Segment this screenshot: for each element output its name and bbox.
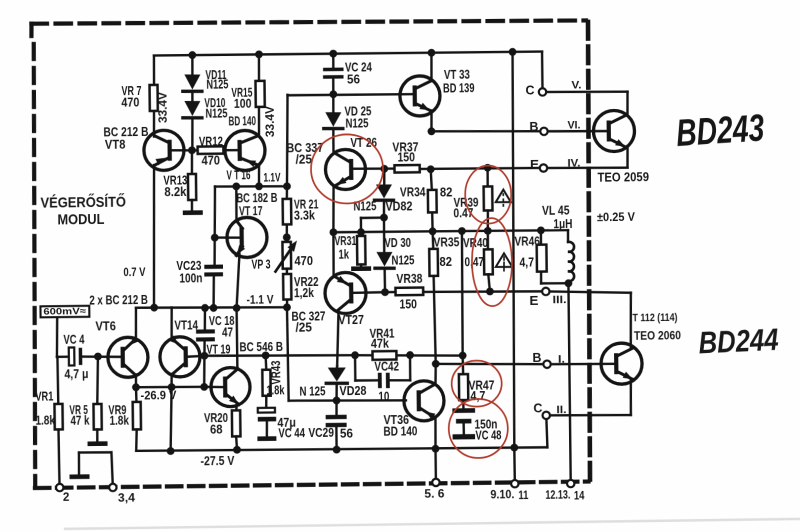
svg-text:III.: III. (552, 294, 566, 306)
svg-text:TEO 2060: TEO 2060 (634, 328, 681, 343)
svg-text:0,47: 0,47 (464, 255, 484, 269)
svg-text:3,4: 3,4 (118, 492, 136, 504)
svg-text:VC 48: VC 48 (475, 428, 501, 442)
ground below VR31 (351, 266, 371, 271)
wire VT19 collector (235, 308, 238, 369)
red circle around VR40 (471, 218, 512, 306)
resistor VR12 (197, 135, 223, 168)
svg-text:VD28: VD28 (339, 384, 366, 398)
wire VT16 emitter (258, 165, 261, 187)
svg-text:N125: N125 (391, 253, 414, 267)
label T112 TEO2060 (632, 312, 681, 343)
terminal E (IV.) (530, 156, 581, 172)
svg-text:82: 82 (439, 255, 452, 269)
label 2 x BC 212 B (89, 293, 148, 308)
junction output node (564, 279, 572, 287)
scan streak bottom (65, 519, 800, 529)
junction rail at x170 (167, 447, 175, 455)
svg-text:B: B (529, 119, 538, 134)
transistor VT17 (BC182B) (226, 191, 278, 258)
svg-text:VT 33: VT 33 (444, 68, 470, 82)
junction VT6 collector / VR9 (132, 383, 140, 391)
potentiometer VP3 (251, 240, 313, 272)
junction -1.1V row at VR22 (283, 303, 291, 311)
transistor VT14 (BC212B) (160, 318, 201, 377)
resistor VR47 (459, 355, 495, 403)
wire VT33 collector (430, 53, 433, 81)
svg-text:1.8k: 1.8k (266, 383, 284, 397)
diode VD30 (374, 217, 414, 292)
wire -1.1V row (136, 306, 287, 309)
junction rail at VR20 (233, 446, 241, 454)
svg-text:VT6: VT6 (95, 319, 116, 333)
transistor VT27 (BC327/25) (291, 272, 367, 334)
svg-text:VT 19: VT 19 (206, 342, 230, 356)
junction VR21/VP3 (283, 233, 291, 241)
svg-text:VR35: VR35 (433, 235, 459, 249)
svg-text:12.13.: 12.13. (545, 490, 570, 502)
terminal B (I.) (532, 349, 614, 368)
ground below VC44 (257, 436, 276, 441)
transistor VT26 (BC337/25) (286, 136, 377, 191)
diode VD11 (182, 55, 228, 92)
wire VR46/VL45 bottom (541, 282, 568, 285)
svg-text:33.4V: 33.4V (265, 106, 277, 137)
red circle around VR47 (451, 360, 502, 407)
label ±0.25V (597, 210, 635, 224)
svg-text:I.: I. (558, 353, 565, 365)
wire VT19 emitter (235, 404, 238, 410)
capacitor VC4 (4.7u) (63, 332, 120, 381)
wire C-II jog to rail (546, 419, 547, 447)
wire output column (568, 283, 570, 481)
svg-text:150: 150 (399, 297, 417, 311)
wire B-I row (436, 363, 543, 366)
handwritten BD243 (675, 107, 766, 155)
wire column 462 (461, 231, 463, 355)
resistor VR46 (514, 230, 547, 283)
capacitor VC29 (308, 400, 353, 450)
resistor VR39 (453, 168, 493, 232)
svg-text:2 x BC 212 B: 2 x BC 212 B (89, 293, 148, 308)
svg-text:C: C (533, 400, 543, 415)
svg-text:9.10.: 9.10. (490, 489, 514, 501)
svg-text:N 125: N 125 (299, 384, 325, 398)
transistor VT33 (BD139) (400, 68, 475, 117)
red circle around VT26 (311, 134, 384, 204)
wire pin9-11 column lower (513, 448, 516, 481)
select mark at VR40 (496, 253, 513, 273)
junction VC18 / feedback row (200, 352, 208, 360)
wire VT26 emitter (333, 185, 334, 232)
diode VD82 (353, 168, 413, 217)
wire VD82 stub to VR31 (361, 218, 384, 233)
resistor VR7 (121, 55, 170, 134)
junction VT33 emitter / B row (428, 127, 436, 135)
svg-text:470: 470 (294, 254, 313, 268)
capacitor VC24 (323, 53, 372, 94)
svg-text:8.2k: 8.2k (164, 185, 186, 199)
junction feedback row VR41 left (351, 351, 359, 359)
junction feedback row VR47 (459, 352, 467, 360)
wire VT19 base (204, 385, 222, 388)
terminal E (III.) (529, 287, 566, 308)
svg-text:-1.1 V: -1.1 V (246, 293, 273, 307)
wire -27.5V rail (136, 446, 547, 452)
junction row186 at VR21 (283, 182, 291, 190)
junction on top rail at supply column (509, 48, 517, 56)
svg-text:1μH: 1μH (553, 217, 572, 231)
ground below VR5 (88, 441, 108, 446)
wire bias row y186 (215, 186, 287, 187)
svg-text:82: 82 (440, 185, 453, 199)
capacitor VC48 (452, 400, 501, 443)
svg-text:VT27: VT27 (338, 313, 364, 327)
wire output rail y231 (333, 230, 568, 245)
junction feedback row VR43 (262, 352, 270, 360)
junction rail231 VR39 (484, 227, 492, 235)
svg-text:VR46: VR46 (514, 234, 540, 248)
wire BD244 emitter (550, 380, 631, 416)
svg-text:V.: V. (571, 79, 581, 91)
svg-text:1,2k: 1,2k (294, 286, 314, 300)
svg-text:MODUL: MODUL (57, 211, 104, 229)
capacitor VC18 (196, 308, 235, 356)
red circle around VR39 (465, 165, 512, 224)
wire VT14 collector to rail (170, 387, 172, 451)
resistor VR21 (282, 186, 318, 242)
svg-text:5. 6: 5. 6 (424, 488, 444, 500)
wire feedback row (204, 353, 462, 359)
wire B row to terminal (431, 130, 540, 132)
junction VR37 row at VD82 (380, 165, 388, 173)
junction VD82 bottom (380, 214, 388, 222)
junction rail231 VR46 (537, 226, 545, 234)
diode VD28 (299, 366, 366, 401)
resistor VR13 (163, 150, 196, 211)
wire VT27 emitter (332, 232, 335, 277)
svg-text:470: 470 (121, 95, 139, 109)
terminal C (V.) (525, 79, 627, 117)
svg-text:VR12: VR12 (199, 135, 223, 149)
svg-text:4,7: 4,7 (519, 255, 534, 269)
svg-text:/25: /25 (295, 320, 312, 334)
svg-text:V T 16: V T 16 (226, 168, 250, 182)
wire BD243 emitter (547, 146, 628, 169)
resistor VR15 (231, 54, 277, 137)
svg-text:VD 30: VD 30 (384, 236, 411, 250)
junction rail231 VR31 (357, 228, 365, 236)
svg-text:E: E (530, 157, 540, 172)
svg-text:BC 546 B: BC 546 B (239, 340, 283, 355)
svg-text:47 k: 47 k (70, 414, 89, 428)
svg-text:T 112 (114): T 112 (114) (632, 312, 677, 325)
junction rail at VC29 (333, 446, 341, 454)
svg-text:VC42: VC42 (374, 360, 399, 374)
junction VT27 base / VD30 (381, 288, 389, 296)
svg-text:BD 140: BD 140 (383, 424, 417, 438)
transistor VT8 (BC212B) (103, 125, 184, 171)
ground at pin loop (69, 474, 89, 479)
wire VT17 emitter (236, 254, 240, 308)
svg-text:1.1V: 1.1V (263, 172, 280, 184)
svg-text:100: 100 (234, 97, 252, 111)
svg-text:VL 45: VL 45 (542, 204, 570, 218)
label -26.9V (140, 388, 176, 402)
svg-text:E: E (529, 293, 539, 308)
capacitor VC44 (47u) (257, 395, 305, 440)
svg-text:VR43: VR43 (269, 360, 283, 384)
svg-text:II.: II. (556, 404, 566, 416)
wire VR35 col to B row (434, 355, 437, 363)
svg-text:1k: 1k (338, 247, 349, 261)
resistor VR37 (392, 140, 419, 172)
inductor VL45 (542, 204, 575, 284)
svg-text:1.8k: 1.8k (109, 414, 129, 428)
junction VD28 bottom (333, 397, 341, 405)
junction rail at VT36 emitter (432, 445, 440, 453)
svg-text:VÉGERŐSÍTŐ: VÉGERŐSÍTŐ (40, 193, 126, 212)
svg-text:VC 44: VC 44 (278, 426, 305, 440)
svg-text:56: 56 (340, 426, 353, 440)
svg-text:BD 140: BD 140 (228, 114, 256, 128)
capacitor VC23 (176, 258, 223, 308)
junction feedback row VR41 right (406, 351, 414, 359)
svg-text:BD243: BD243 (675, 107, 766, 155)
terminal C (II.) (533, 400, 566, 419)
svg-text:100n: 100n (179, 271, 202, 285)
wire VT36 emitter to pin 5,6 (434, 449, 437, 479)
handwritten BD244 (698, 322, 780, 361)
junction E-III row at VR40 (486, 288, 494, 296)
junction -1.1V row at VT8 emitter (150, 304, 158, 312)
diode VD10 (183, 92, 228, 151)
wire VT33 emitter (430, 111, 433, 132)
capacitor VC42 bypass loop (355, 355, 411, 404)
wire VC23 column (214, 187, 216, 265)
wire VT33 base row (288, 94, 413, 96)
ground loop to pins 3,4 (79, 452, 113, 484)
svg-text:47: 47 (222, 325, 233, 339)
junction rail / pin9-11 column (510, 444, 518, 452)
junction VT19 base (200, 383, 208, 391)
svg-text:33.4V: 33.4V (158, 92, 170, 123)
svg-text:2: 2 (63, 492, 70, 504)
svg-text:N125: N125 (205, 106, 227, 120)
resistor VR34 (400, 169, 453, 232)
terminal pins 9,10,11 (490, 480, 529, 503)
svg-text:1.8k: 1.8k (35, 413, 55, 427)
wire VR12 to VT16 (223, 149, 239, 152)
label 600mV box (40, 306, 89, 318)
resistor VR5 (69, 356, 102, 441)
red circle around VC48 (448, 399, 508, 459)
junction rail231 VT26/VT27 emitters (329, 228, 337, 236)
terminal pin 2 (56, 484, 70, 504)
resistor VR40 (463, 231, 493, 292)
terminal pins 3,4 (109, 483, 136, 504)
wire supply column (rail to pin 9-11) (510, 52, 517, 448)
transistor VT6 (BC212B) (95, 319, 148, 378)
svg-text:VT8: VT8 (105, 138, 126, 152)
wire VT36 emitter (434, 418, 437, 449)
junction on top rail at VD11 (188, 51, 196, 59)
wire VT17 base stub (215, 236, 240, 239)
junction VT17 emitter row (233, 304, 241, 312)
wire VT14 collector (170, 374, 173, 387)
junction B-I row at VT36 collector (432, 360, 440, 368)
label TEO 2059 (597, 170, 649, 185)
wire E-III row (385, 290, 542, 293)
diode VD25 (323, 94, 343, 151)
svg-text:4,7 μ: 4,7 μ (64, 367, 88, 381)
svg-text:VD82: VD82 (385, 199, 412, 213)
svg-text:N125: N125 (345, 116, 368, 130)
junction VC24 bottom (329, 90, 337, 98)
resistor VR1 (35, 357, 64, 485)
svg-text:VP 3: VP 3 (251, 257, 270, 271)
svg-text:68: 68 (210, 422, 223, 436)
svg-text:B: B (532, 350, 541, 365)
label -1.1V (246, 293, 273, 307)
junction VR37 row at VR34 (427, 165, 435, 173)
wire VT6 collector (135, 375, 138, 388)
svg-text:IV.: IV. (567, 157, 580, 169)
ground below VR13 (183, 210, 203, 215)
svg-text:VR31: VR31 (334, 234, 356, 248)
resistor VR31 (334, 232, 365, 267)
terminal B (VI.) (529, 118, 607, 135)
label -27.5V (200, 454, 235, 468)
svg-text:14: 14 (574, 490, 585, 502)
svg-text:VC 4: VC 4 (63, 333, 84, 347)
wire VT27 collector (337, 311, 340, 366)
resistor VR43 (262, 355, 284, 397)
module border (dashed) (30, 17, 594, 488)
svg-text:11: 11 (518, 490, 529, 502)
resistor VR20 (204, 410, 241, 450)
junction row186 at VT17 collector (232, 182, 240, 190)
label VD25 (344, 104, 371, 130)
svg-text:TEO 2059: TEO 2059 (597, 170, 649, 185)
resistor VR41 (369, 327, 396, 360)
wire input node (56, 318, 68, 357)
junction VC4/VR5 node (94, 353, 102, 361)
wire VR21 column upper (286, 95, 289, 187)
wire collector row y387 (136, 386, 204, 387)
junction VT17 base (211, 234, 219, 242)
wire BD244 collector (550, 291, 632, 349)
wire VT8 emitter (0.7V line) (122, 165, 155, 308)
junction on top rail at VT33 collector (428, 49, 436, 57)
wire VT17 collector (235, 186, 238, 221)
transistor VT16 (BD140) (225, 114, 281, 185)
junction on top rail at VC24 (329, 50, 337, 58)
wire VR22col to VT36 base row (287, 306, 406, 402)
junction -1.1V row at VC23 (210, 304, 218, 312)
svg-text:150: 150 (397, 150, 415, 164)
resistor VR9 (108, 387, 141, 451)
svg-text:BD244: BD244 (698, 322, 780, 361)
transistor VT36 (BD140) (383, 381, 445, 439)
transistor VT19 (BC546B) (206, 340, 283, 407)
wire VT27 base (353, 291, 385, 294)
wire VT6 emitter (134, 308, 137, 340)
svg-text:VI.: VI. (567, 119, 580, 131)
select mark at VR39 (496, 190, 511, 209)
svg-text:VT 17: VT 17 (239, 204, 263, 218)
resistor VR35 (429, 231, 461, 356)
svg-text:600mV≈: 600mV≈ (43, 306, 86, 317)
svg-text:N125: N125 (206, 77, 228, 91)
svg-text:VC29: VC29 (308, 426, 334, 440)
wire VT36 collector (434, 364, 437, 385)
junction rail231 col462 (458, 227, 466, 235)
wire VT8 collector (153, 134, 155, 136)
wire VT8 base to VR12 (172, 149, 198, 152)
junction on top rail at VR15 (255, 50, 263, 58)
svg-text:±0.25 V: ±0.25 V (597, 210, 635, 224)
svg-text:VR38: VR38 (396, 272, 422, 286)
transistor BD244 (external) (601, 343, 642, 384)
transistor BD243 (external) (593, 110, 634, 151)
svg-text:-27.5 V: -27.5 V (200, 454, 235, 468)
wire VT14 emitter (170, 308, 173, 340)
terminal pins 5,6 (424, 479, 444, 501)
wire VT14 base (188, 355, 205, 358)
wire top supply rail (154, 51, 543, 96)
junction VT8 base / VR13 (188, 146, 196, 154)
svg-text:56: 56 (347, 72, 360, 86)
svg-text:4,7: 4,7 (470, 389, 485, 403)
junction -1.1V row at VC18 (201, 304, 209, 312)
svg-text:0.7 V: 0.7 V (123, 265, 145, 279)
svg-text:VT14: VT14 (174, 318, 198, 332)
wire VC18 column to VT19 base (203, 356, 206, 387)
svg-text:BD 139: BD 139 (443, 81, 475, 95)
terminal pins 12,13,14 (545, 480, 585, 503)
svg-text:470: 470 (201, 154, 220, 168)
svg-text:/25: /25 (295, 152, 312, 166)
svg-text:C: C (525, 82, 535, 97)
junction VT14 collector (168, 383, 176, 391)
resistor VR22 (283, 268, 319, 307)
junction VT16 emitter row (255, 182, 263, 190)
svg-text:VR1: VR1 (35, 389, 53, 403)
ground below VC48 (453, 434, 476, 439)
label VEGEROSITO MODUL (40, 193, 126, 229)
svg-text:VR34: VR34 (400, 185, 426, 199)
svg-text:3.3k: 3.3k (294, 208, 315, 222)
junction rail231 VR34 (429, 227, 437, 235)
svg-text:47k: 47k (371, 337, 389, 351)
resistor VR38 (395, 272, 423, 312)
junction VR37 row at VR39 (484, 164, 492, 172)
wire VT26 base / VR37 row (353, 167, 540, 171)
